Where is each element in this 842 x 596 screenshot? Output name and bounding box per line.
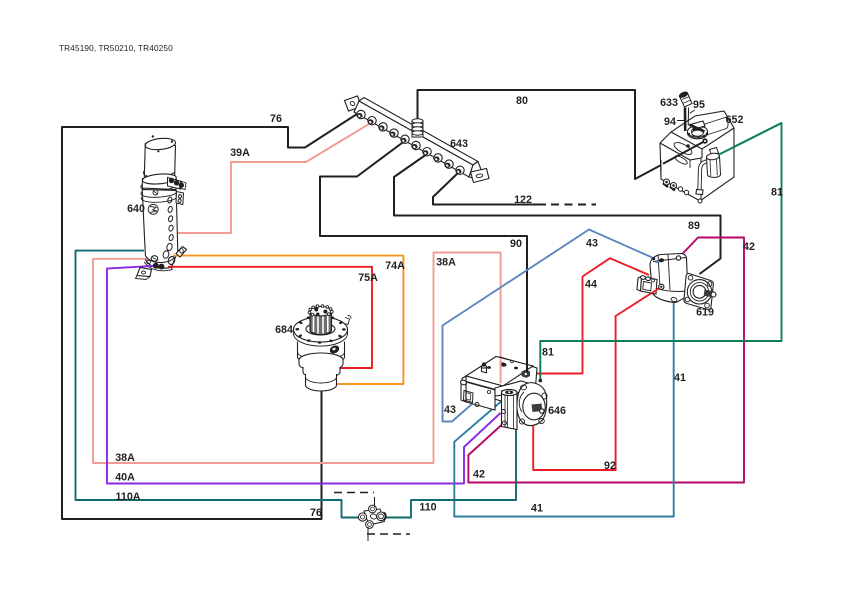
bell housing right bbox=[517, 383, 547, 426]
wire 74A tip at tank 640 edge bbox=[173, 255, 177, 257]
handle recess on top right face bbox=[702, 117, 728, 135]
pump 646 bbox=[460, 357, 547, 430]
svg-text:90: 90 bbox=[510, 238, 522, 250]
side port bbox=[329, 345, 340, 355]
wire 81 over tank 652 face bbox=[718, 123, 782, 155]
svg-text:TR45190, TR50210, TR40250: TR45190, TR50210, TR40250 bbox=[59, 43, 173, 53]
svg-text:38A: 38A bbox=[115, 452, 135, 464]
svg-text:110A: 110A bbox=[116, 491, 141, 503]
wire 81 green: tank 652 filter to pump bbox=[540, 123, 781, 381]
bottom bracket bbox=[176, 247, 187, 258]
wire 75A tip at tank 640 foot bbox=[168, 266, 172, 268]
wire 92 tip over motor aux block bbox=[652, 287, 662, 293]
wire 92 red: motor to pump bottom bbox=[533, 287, 661, 470]
manifold 643 bbox=[345, 96, 490, 183]
ports bbox=[659, 258, 665, 262]
sight holes bbox=[162, 197, 174, 259]
wire 40A tip over tank 640 bracket bbox=[146, 265, 156, 268]
filler neck bbox=[688, 127, 708, 139]
svg-text:76: 76 bbox=[270, 113, 282, 125]
top plate holes bbox=[499, 362, 507, 367]
wire 80 black: manifold stack to tank 652 bbox=[418, 90, 706, 179]
bottom right pipe elbow bbox=[700, 162, 707, 191]
inner edges bbox=[660, 143, 701, 201]
wire 89 black: manifold port7 to motor 619 bbox=[394, 154, 721, 274]
drive 684 bbox=[294, 305, 352, 391]
shaft bbox=[532, 404, 543, 413]
wire 75A red: tank 640 to drive 684 bbox=[170, 267, 372, 368]
svg-text:94: 94 bbox=[664, 116, 676, 128]
mid bracket between plate and barrel bbox=[495, 381, 535, 396]
tank 652 bottom ports bbox=[663, 179, 702, 203]
svg-text:39A: 39A bbox=[230, 147, 250, 159]
top plate bbox=[466, 357, 533, 387]
wire 39A salmon: manifold port2 to tank 640 bbox=[176, 121, 374, 233]
cap 633 bbox=[679, 91, 692, 107]
flange bolt dots bbox=[295, 316, 345, 343]
body stack bbox=[298, 342, 345, 365]
body bbox=[142, 190, 178, 263]
svg-text:75A: 75A bbox=[358, 272, 378, 284]
shaft bbox=[704, 290, 714, 298]
hub collar bbox=[306, 323, 335, 335]
barrel bbox=[502, 391, 518, 430]
bottom valve 110 bbox=[358, 505, 385, 528]
wire 38A salmon: tank 640 to pump top bbox=[93, 253, 501, 464]
dashed guides bbox=[334, 492, 374, 494]
main body bbox=[650, 254, 688, 303]
leader 94 bbox=[677, 120, 686, 122]
neck clamp dark ring bbox=[692, 127, 701, 131]
wire 80 over tank 652 face bbox=[663, 141, 705, 164]
rear housing block bbox=[468, 357, 537, 402]
flange bbox=[684, 273, 713, 309]
port 92 on motor bbox=[659, 284, 664, 289]
svg-text:640: 640 bbox=[127, 203, 145, 215]
wire 43 tip over motor body bbox=[656, 261, 661, 263]
svg-text:95: 95 bbox=[693, 99, 705, 111]
wire 38A tip over pump plate bbox=[500, 359, 502, 384]
wire 74A orange: tank 640 to drive 684 bbox=[174, 256, 403, 384]
svg-text:43: 43 bbox=[586, 238, 598, 250]
manifold ports bbox=[356, 110, 464, 174]
svg-text:619: 619 bbox=[696, 307, 714, 319]
svg-text:89: 89 bbox=[688, 220, 700, 232]
svg-text:44: 44 bbox=[585, 279, 597, 291]
svg-text:122: 122 bbox=[514, 194, 532, 206]
svg-text:41: 41 bbox=[531, 503, 543, 515]
wire 76 black: manifold port1 to drive 684 via big left loop bbox=[62, 114, 357, 519]
svg-text:633: 633 bbox=[660, 97, 678, 109]
flange bbox=[294, 317, 348, 342]
tank 652 bbox=[660, 111, 734, 201]
svg-text:42: 42 bbox=[743, 241, 755, 253]
top fittings bbox=[522, 370, 531, 379]
barrel base flanges bbox=[502, 410, 506, 414]
svg-text:74A: 74A bbox=[385, 260, 405, 272]
left aux block bbox=[641, 277, 658, 295]
valve stems bbox=[374, 497, 376, 507]
crown bbox=[310, 307, 332, 316]
oval slot front left bbox=[672, 140, 693, 157]
bell lobes bbox=[521, 385, 527, 390]
wire 110/110A dark teal: tank 640 to pump via bottom valve bbox=[76, 251, 517, 518]
cap cylinder bbox=[144, 144, 175, 178]
wire 122 black with dashed end bbox=[433, 171, 546, 205]
collar bbox=[142, 179, 176, 190]
wire 90 black: manifold port5 to pump top bbox=[320, 140, 527, 373]
svg-text:42: 42 bbox=[473, 469, 485, 481]
svg-text:81: 81 bbox=[771, 187, 783, 199]
tab right bbox=[345, 318, 350, 325]
cap collar on neck bbox=[692, 121, 705, 129]
svg-text:80: 80 bbox=[516, 95, 528, 107]
svg-text:110: 110 bbox=[419, 502, 436, 514]
left block bbox=[466, 382, 495, 410]
svg-text:684: 684 bbox=[275, 324, 293, 336]
wire 40A purple: tank 640 to pump bbox=[107, 266, 501, 484]
svg-text:40A: 40A bbox=[115, 472, 135, 484]
filter on 652 bbox=[706, 148, 721, 178]
wire 122 dashes bbox=[551, 204, 596, 206]
wire 43 blue: pump to motor over the top bbox=[443, 230, 661, 422]
node fitting 80 on tank 652 bbox=[702, 138, 707, 143]
svg-text:81: 81 bbox=[542, 347, 554, 359]
manifold stack fitting bbox=[412, 119, 423, 137]
svg-text:76: 76 bbox=[310, 507, 322, 519]
bracket bolts & holes bbox=[153, 263, 158, 268]
tank 640 bbox=[136, 135, 187, 279]
port 43 on motor bbox=[659, 258, 665, 262]
breather 94/95 stems bbox=[685, 108, 705, 132]
svg-text:38A: 38A bbox=[436, 257, 456, 269]
wire 44 red: pump to motor bbox=[529, 258, 649, 373]
wire 42 magenta: pump to motor long loop bbox=[468, 238, 744, 483]
clamp fitting top right bbox=[168, 178, 187, 190]
svg-text:643: 643 bbox=[450, 138, 468, 150]
svg-text:652: 652 bbox=[726, 114, 744, 126]
motor 619 bbox=[637, 254, 716, 310]
svg-text:646: 646 bbox=[548, 405, 566, 417]
nipple on plate bbox=[482, 367, 487, 373]
svg-text:92: 92 bbox=[604, 460, 616, 472]
side tab bbox=[176, 192, 184, 205]
bolt + emblem bbox=[153, 190, 158, 195]
wire 41 teal-blue: pump to motor bottom loop bbox=[454, 300, 673, 517]
wire 90 over pump plate bbox=[526, 364, 528, 373]
port fitting for line 80 bbox=[702, 138, 707, 143]
svg-text:43: 43 bbox=[444, 404, 456, 416]
svg-text:41: 41 bbox=[674, 372, 686, 384]
left lower panel line bbox=[660, 160, 662, 179]
spline hub body bbox=[310, 312, 332, 335]
